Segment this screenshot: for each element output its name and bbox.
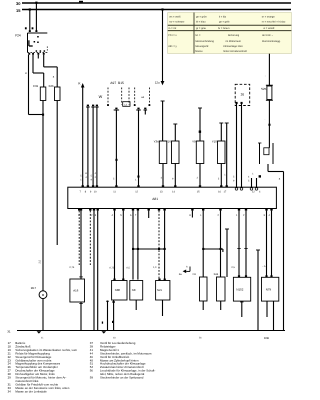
svg-text:D08: D08: [264, 337, 269, 340]
svg-text:S25: S25: [261, 87, 267, 91]
svg-text:Y34: Y34: [154, 139, 159, 143]
svg-text:rs = rosa hbl = h.blau: rs = rosa hbl = h.blau: [262, 21, 286, 24]
svg-text:Y9: Y9: [192, 139, 196, 143]
svg-text:Sicherung: Sicherung: [228, 34, 240, 37]
svg-text:N152: N152: [236, 288, 243, 292]
svg-text:M17: M17: [31, 287, 37, 290]
svg-text:F26: F26: [49, 84, 54, 88]
svg-text:59: 59: [90, 376, 94, 380]
svg-text:S24: S24: [214, 273, 219, 276]
svg-text:29: 29: [8, 376, 12, 380]
svg-text:ro = rot: ro = rot: [168, 27, 176, 30]
svg-text:N8: N8: [132, 288, 136, 292]
svg-text:- A: - A: [263, 265, 266, 268]
svg-text:26: 26: [241, 93, 245, 97]
svg-text:ab 9.98 →: ab 9.98 →: [262, 34, 274, 37]
svg-text:F24: F24: [15, 34, 21, 38]
svg-text:56: 56: [90, 369, 94, 373]
svg-text:31: 31: [7, 330, 11, 334]
svg-text:N80: N80: [115, 288, 121, 292]
svg-text:Steckverbindung: Steckverbindung: [195, 40, 214, 43]
svg-text:F31: F31: [33, 84, 38, 88]
svg-text:Y10: Y10: [212, 139, 217, 143]
svg-text:0,75: 0,75: [110, 267, 115, 270]
svg-text:li = lila: li = lila: [219, 16, 227, 19]
svg-text:12a: 12a: [155, 81, 160, 85]
svg-text:gr = grau: gr = grau: [196, 27, 207, 30]
svg-text:Y16: Y16: [166, 139, 171, 143]
svg-text:0,75: 0,75: [70, 266, 75, 269]
svg-text:ws = weiß: ws = weiß: [169, 16, 181, 19]
svg-text:hinter Armaturenbrett: hinter Armaturenbrett: [223, 50, 247, 53]
svg-text:or = orange: or = orange: [262, 16, 275, 19]
svg-text:A16: A16: [73, 289, 78, 293]
svg-text:Steckverbinder an der Spritzwa: Steckverbinder an der Spritzwand: [100, 376, 144, 380]
svg-text:W: W: [99, 95, 103, 99]
svg-text:br = braun: br = braun: [218, 27, 230, 30]
svg-text:A97 B15: A97 B15: [110, 81, 124, 85]
svg-text:Masse an der Lenksäule: Masse an der Lenksäule: [15, 389, 47, 393]
svg-text:A81: A81: [152, 197, 158, 201]
svg-text:N79: N79: [266, 288, 272, 292]
svg-text:30: 30: [16, 1, 21, 6]
svg-text:A81 = y: A81 = y: [168, 45, 177, 48]
svg-text:Steuergerät: Steuergerät: [195, 45, 208, 48]
svg-text:F24 = x: F24 = x: [168, 34, 177, 37]
svg-text:Klemmenbelegg.: Klemmenbelegg.: [262, 40, 281, 43]
svg-text:bl = blau: bl = blau: [196, 21, 206, 24]
svg-text:St. =: St. =: [195, 34, 201, 37]
svg-text:2,5: 2,5: [38, 259, 41, 263]
svg-text:sw = schwarz: sw = schwarz: [169, 21, 185, 24]
svg-text:Masse: Masse: [195, 50, 203, 53]
svg-text:im Motorraum: im Motorraum: [226, 40, 241, 43]
svg-text:15: 15: [16, 8, 21, 13]
svg-text:Klimaanlage links: Klimaanlage links: [223, 45, 243, 48]
svg-text:ge = gelb: ge = gelb: [219, 21, 230, 24]
svg-text:N21: N21: [157, 289, 162, 292]
svg-text:FH: FH: [193, 273, 197, 276]
svg-text:gn = grün: gn = grün: [196, 16, 207, 19]
svg-text:34: 34: [8, 389, 12, 393]
svg-text:vi = violett: vi = violett: [263, 27, 274, 30]
